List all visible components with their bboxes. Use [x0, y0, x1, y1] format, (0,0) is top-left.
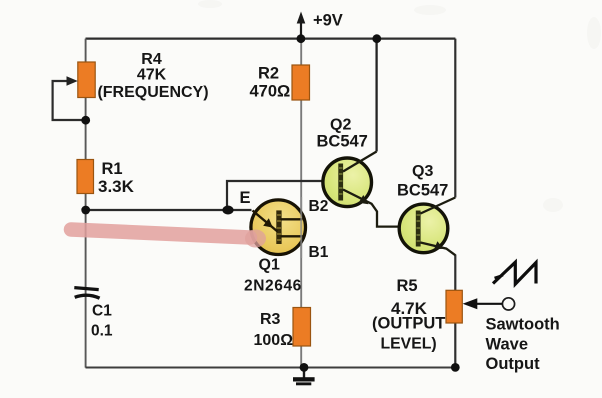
label R3 value: [254, 311, 294, 349]
label R1 value: [98, 160, 135, 196]
svg-text:C1: C1: [92, 303, 112, 320]
wire: emitter node horizontal (R1 junction to Q1 E): [86, 209, 252, 211]
svg-text:R5: R5: [397, 277, 418, 295]
node: Q1 emitter junction: [222, 206, 233, 215]
node: top rail junction at R2: [297, 34, 306, 43]
transistor Q2 collector lead: [343, 152, 377, 172]
svg-text:R2: R2: [258, 64, 279, 82]
svg-text:E: E: [240, 189, 251, 207]
svg-text:(OUTPUT: (OUTPUT: [372, 315, 445, 333]
svg-text:Q2: Q2: [330, 117, 351, 134]
transistor Q1 pin B1 lead: [281, 235, 304, 237]
transistor Q3 collector lead: [421, 198, 456, 214]
label Q1 type: [244, 257, 302, 295]
label R4 value: [97, 51, 208, 101]
wire: top +9V rail: [86, 37, 456, 39]
wire: right rail lower (Q3 emitter through R5 to ground): [454, 255, 456, 368]
svg-text:R4: R4: [141, 51, 162, 68]
wire: right rail upper (Q3 collector to +9V): [454, 39, 456, 198]
label Q3 type: [397, 163, 448, 200]
node: bottom right junction: [451, 363, 460, 372]
transistor Q1 pin B2 lead: [281, 218, 303, 220]
transistor Q1 internals: UJT bar: [276, 210, 281, 244]
transistor Q3 BC547 body: [399, 204, 448, 253]
transistor Q2 internals: base bar: [338, 164, 343, 201]
highlighter pink swoosh: [71, 230, 266, 248]
svg-text:R1: R1: [102, 160, 123, 178]
svg-text:3.3K: 3.3K: [98, 177, 135, 196]
+9V supply arrow: [297, 12, 306, 39]
label R5 value: [372, 277, 445, 353]
svg-text:BC547: BC547: [317, 133, 368, 151]
label Q2 type: [317, 117, 368, 151]
faint scan smudges (decorative): [198, 0, 601, 212]
capacitor C1: [74, 288, 99, 299]
svg-text:LEVEL): LEVEL): [381, 336, 437, 353]
svg-text:2N2646: 2N2646: [244, 278, 302, 295]
svg-text:Output: Output: [486, 355, 541, 373]
svg-text:R3: R3: [260, 311, 281, 328]
svg-text:470Ω: 470Ω: [250, 83, 291, 101]
node: top rail junction at Q2 collector: [372, 34, 381, 43]
wire: bottom ground rail: [86, 366, 456, 368]
resistor R2: [292, 65, 310, 100]
svg-text:B1: B1: [309, 244, 329, 261]
transistor Q2 BC547 body: [323, 158, 372, 207]
svg-text:Q1: Q1: [259, 257, 280, 274]
node: ground junction: [300, 363, 309, 372]
wire: B2-B1 net crossing Q1 body: [300, 197, 302, 258]
wire: Q2 collector drop from top rail: [375, 39, 377, 152]
label R2 value: [250, 64, 291, 100]
label C1 value: [91, 303, 113, 340]
node: R1 bottom junction: [81, 206, 90, 215]
transistor Q3 internals: base bar: [416, 211, 421, 247]
svg-text:100Ω: 100Ω: [254, 332, 294, 349]
svg-text:Sawtooth: Sawtooth: [486, 316, 560, 334]
svg-text:Wave: Wave: [486, 336, 529, 354]
transistor Q3 emitter lead with arrow: [421, 241, 456, 255]
svg-text:47K: 47K: [137, 67, 167, 84]
wire: left rail upper (R4/R1/C1 column): [85, 39, 87, 368]
svg-text:BC547: BC547: [397, 182, 448, 200]
ground symbol: [293, 368, 315, 386]
transistor Q1 2N2646 body: [251, 200, 306, 255]
transistor Q1 emitter arrow: [253, 211, 278, 232]
R4 wiper arm: [53, 76, 86, 120]
svg-text:0.1: 0.1: [91, 323, 113, 340]
wire: R2/B2/B1/R3 vertical net: [300, 39, 302, 367]
sawtooth wave icon: [493, 262, 536, 284]
svg-text:(FREQUENCY): (FREQUENCY): [97, 84, 208, 101]
resistor R5 (potentiometer 4.7K): [446, 290, 462, 323]
svg-text:Q3: Q3: [412, 163, 433, 180]
transistor Q2 emitter lead with arrow: [343, 190, 400, 227]
resistor R4 (potentiometer 47K): [78, 62, 95, 98]
svg-text:+9V: +9V: [313, 12, 343, 30]
resistor R3: [293, 308, 311, 347]
svg-text:B2: B2: [309, 198, 329, 215]
node: R4 wiper junction: [81, 116, 90, 125]
output wiper arrow into R5: [463, 298, 503, 309]
label Sawtooth Wave Output: [486, 316, 560, 374]
resistor R1: [77, 160, 94, 194]
wire: Q1 emitter to Q2 base jog: [227, 181, 324, 210]
output terminal circle: [502, 298, 514, 310]
